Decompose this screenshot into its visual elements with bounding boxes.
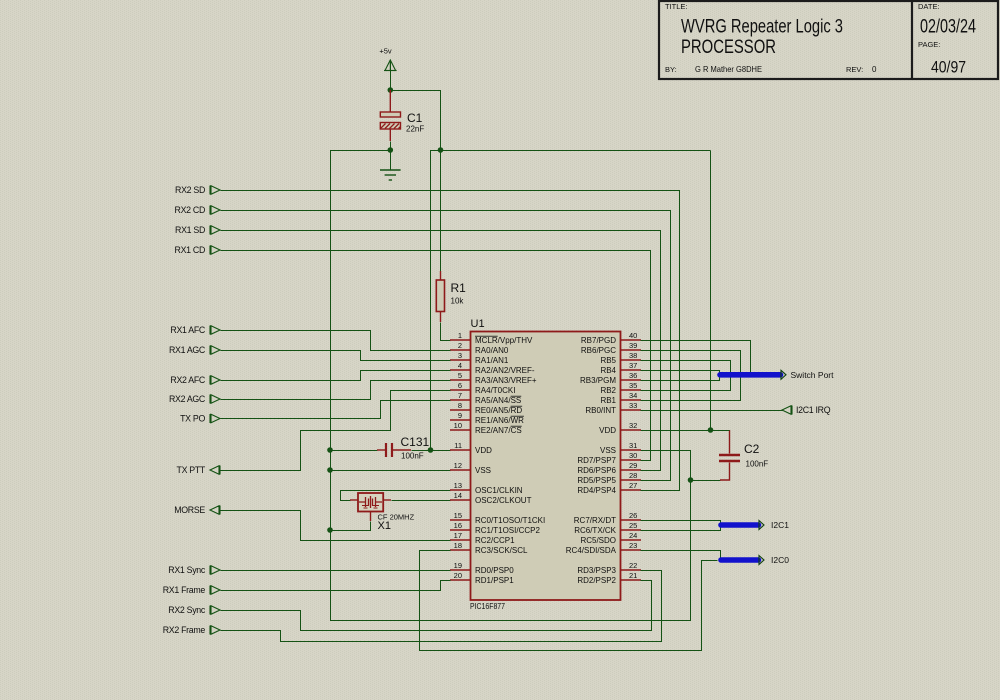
capacitor C2 top pin bbox=[729, 430, 731, 454]
svg-text:RB5: RB5 bbox=[600, 356, 616, 365]
svg-text:100nF: 100nF bbox=[401, 452, 424, 461]
svg-text:22: 22 bbox=[629, 561, 637, 570]
wire C131 left to ground column bbox=[331, 450, 378, 452]
svg-text:7: 7 bbox=[458, 391, 462, 400]
wire crystal to pin 14 OSC2 bbox=[392, 500, 451, 502]
wire pin 36 RB3 to switch bus bbox=[641, 378, 720, 381]
svg-text:RD5/PSP5: RD5/PSP5 bbox=[577, 476, 616, 485]
pin 26 RC7/RX/DT stub bbox=[574, 511, 641, 525]
svg-text:REV:: REV: bbox=[846, 65, 863, 74]
svg-text:02/03/24: 02/03/24 bbox=[920, 17, 976, 38]
svg-text:RA5/AN4/SS: RA5/AN4/SS bbox=[475, 396, 521, 405]
pin 19 RD0/PSP0 stub bbox=[450, 561, 514, 575]
svg-text:RE0/AN5/RD: RE0/AN5/RD bbox=[475, 406, 522, 415]
op-amp U1 body (PIC16F877 IC) bbox=[470, 318, 621, 611]
wire R1 to pin 1 MCLR bbox=[441, 323, 451, 341]
svg-text:RX2 Frame: RX2 Frame bbox=[163, 625, 206, 635]
svg-text:VSS: VSS bbox=[600, 446, 616, 455]
svg-text:40: 40 bbox=[629, 331, 637, 340]
svg-text:RD4/PSP4: RD4/PSP4 bbox=[577, 486, 616, 495]
wire TX PTT to pin 6 bbox=[221, 391, 451, 471]
svg-text:MCLR/Vpp/THV: MCLR/Vpp/THV bbox=[475, 336, 533, 345]
svg-text:RX2 SD: RX2 SD bbox=[175, 185, 205, 195]
wire VDD left branch to pin 11 column bbox=[431, 151, 441, 451]
pin 29 RD6/PSP6 stub bbox=[577, 461, 641, 475]
svg-text:RE2/AN7/CS: RE2/AN7/CS bbox=[475, 426, 522, 435]
svg-text:RX2 AGC: RX2 AGC bbox=[169, 394, 206, 404]
svg-text:34: 34 bbox=[629, 391, 637, 400]
power +5v symbol bbox=[379, 47, 396, 71]
svg-text:18: 18 bbox=[454, 541, 462, 550]
pin 9 RE1/AN6/WR stub bbox=[450, 411, 524, 425]
pin 37 RB4 stub bbox=[600, 361, 641, 375]
svg-text:RC2/CCP1: RC2/CCP1 bbox=[475, 536, 515, 545]
junction pin11 VDD / C131 bbox=[428, 447, 434, 453]
svg-text:RX1 AFC: RX1 AFC bbox=[170, 325, 206, 335]
svg-text:DATE:: DATE: bbox=[918, 2, 940, 11]
svg-text:VDD: VDD bbox=[599, 426, 616, 435]
capacitor C1 top pin bbox=[389, 90, 391, 112]
svg-text:RX2 CD: RX2 CD bbox=[175, 205, 205, 215]
junction pin 12 VSS on ground column bbox=[327, 467, 333, 473]
svg-text:2: 2 bbox=[458, 341, 462, 350]
svg-text:PROCESSOR: PROCESSOR bbox=[681, 37, 776, 58]
svg-text:0: 0 bbox=[872, 65, 877, 74]
wire RX1 AGC to pin 3 bbox=[221, 351, 451, 361]
wire pin 40 RB7 to switch bus bbox=[641, 341, 751, 373]
svg-text:30: 30 bbox=[629, 451, 637, 460]
junction C2 bottom on VSS column bbox=[688, 477, 694, 483]
svg-text:1: 1 bbox=[458, 331, 462, 340]
svg-text:WVRG Repeater Logic 3: WVRG Repeater Logic 3 bbox=[681, 17, 843, 38]
wire C1 to ground junction bbox=[389, 142, 391, 151]
svg-text:RB1: RB1 bbox=[600, 396, 616, 405]
crystal X1 case pin bbox=[370, 512, 372, 522]
capacitor C131 right pin bbox=[393, 449, 411, 451]
junction C131 left on ground column bbox=[327, 447, 333, 453]
svg-text:RC4/SDI/SDA: RC4/SDI/SDA bbox=[566, 546, 617, 555]
wire RX2 Frame to pin 22 bbox=[221, 571, 662, 642]
pin 15 RC0/T1OSO/T1CKI stub bbox=[450, 511, 545, 525]
ground symbol bbox=[380, 170, 401, 180]
svg-text:6: 6 bbox=[458, 381, 462, 390]
wire crystal case to ground column bbox=[331, 522, 371, 531]
pin 18 RC3/SCK/SCL stub bbox=[450, 541, 528, 555]
svg-text:I2C1 IRQ: I2C1 IRQ bbox=[796, 405, 831, 415]
node RX1 Frame terminal bbox=[163, 585, 220, 595]
svg-text:36: 36 bbox=[629, 371, 637, 380]
pin 7 RA5/AN4/SS stub bbox=[450, 391, 521, 405]
wire RX2 Sync to pin 21 bbox=[221, 581, 652, 631]
svg-text:19: 19 bbox=[454, 561, 462, 570]
svg-text:RA0/AN0: RA0/AN0 bbox=[475, 346, 509, 355]
svg-text:5: 5 bbox=[458, 371, 462, 380]
crystal X1 left pin bbox=[350, 499, 358, 501]
node RX1 Sync terminal bbox=[168, 565, 220, 575]
junction VDD node at (440.5,150) bbox=[438, 147, 444, 153]
wire RX2 SD to pin 27 bbox=[221, 191, 680, 491]
wire RX2 AGC to pin 5 bbox=[221, 381, 451, 400]
crystal X1 bbox=[358, 493, 415, 532]
svg-text:VDD: VDD bbox=[475, 446, 492, 455]
svg-text:C2: C2 bbox=[744, 442, 760, 456]
wire pin 18 SCL to I2C0 bus bbox=[420, 551, 718, 651]
svg-text:RC0/T1OSO/T1CKI: RC0/T1OSO/T1CKI bbox=[475, 516, 545, 525]
svg-text:RD6/PSP6: RD6/PSP6 bbox=[577, 466, 616, 475]
resistor R1 top pin bbox=[440, 271, 442, 280]
wire I2C1 bus bbox=[721, 520, 789, 530]
svg-text:OSC1/CLKIN: OSC1/CLKIN bbox=[475, 486, 523, 495]
node RX2 CD terminal bbox=[175, 205, 220, 215]
svg-text:4: 4 bbox=[458, 361, 462, 370]
svg-text:X1: X1 bbox=[378, 520, 391, 532]
pin 34 RB1 stub bbox=[600, 391, 641, 405]
pin 6 RA4/T0CKI stub bbox=[450, 381, 515, 395]
pin 4 RA2/AN2/VREF- stub bbox=[450, 361, 535, 375]
junction +5v top bbox=[388, 87, 394, 93]
svg-text:RD3/PSP3: RD3/PSP3 bbox=[577, 566, 616, 575]
svg-text:RD1/PSP1: RD1/PSP1 bbox=[475, 576, 514, 585]
svg-text:RC6/TX/CK: RC6/TX/CK bbox=[574, 526, 616, 535]
wire to pin 11 VDD bbox=[431, 450, 451, 452]
pin 14 OSC2/CLKOUT stub bbox=[450, 491, 532, 505]
svg-text:33: 33 bbox=[629, 401, 637, 410]
svg-text:11: 11 bbox=[454, 441, 462, 450]
svg-text:U1: U1 bbox=[471, 318, 485, 330]
svg-text:PAGE:: PAGE: bbox=[918, 40, 940, 49]
wire ground rail left/down bbox=[331, 151, 691, 621]
wire RX1 Frame to pin 20 bbox=[221, 581, 451, 591]
junction crystal ground on ground column bbox=[327, 527, 333, 533]
node RX2 SD terminal bbox=[175, 185, 220, 195]
svg-text:TITLE:: TITLE: bbox=[665, 2, 688, 11]
svg-text:RX1 AGC: RX1 AGC bbox=[169, 345, 206, 355]
svg-text:24: 24 bbox=[629, 531, 637, 540]
pin 17 RC2/CCP1 stub bbox=[450, 531, 515, 545]
node RX1 AGC terminal bbox=[169, 345, 220, 355]
svg-text:RA1/AN1: RA1/AN1 bbox=[475, 356, 509, 365]
svg-text:RC5/SDO: RC5/SDO bbox=[580, 536, 616, 545]
wire RX1 CD to pin 30 bbox=[221, 251, 651, 461]
svg-text:+5v: +5v bbox=[379, 47, 392, 56]
svg-text:OSC2/CLKOUT: OSC2/CLKOUT bbox=[475, 496, 532, 505]
svg-text:RC1/T1OSI/CCP2: RC1/T1OSI/CCP2 bbox=[475, 526, 540, 535]
wire pin 25 RC6 to I2C1 bus bbox=[641, 528, 721, 531]
pin 28 RD5/PSP5 stub bbox=[577, 471, 641, 485]
pin 12 VSS stub bbox=[450, 461, 491, 475]
capacitor C131 left pin bbox=[377, 449, 385, 451]
pin 30 RD7/PSP7 stub bbox=[577, 451, 641, 465]
pin 27 RD4/PSP4 stub bbox=[577, 481, 641, 495]
pin 32 VDD stub bbox=[599, 421, 641, 435]
pin 8 RE0/AN5/RD stub bbox=[450, 401, 522, 415]
pin 22 RD3/PSP3 stub bbox=[577, 561, 641, 575]
crystal X1 right pin bbox=[383, 499, 391, 501]
svg-text:VSS: VSS bbox=[475, 466, 491, 475]
pin 25 RC6/TX/CK stub bbox=[574, 521, 641, 535]
wire C2 bottom to VSS column bbox=[691, 480, 721, 482]
svg-text:23: 23 bbox=[629, 541, 637, 550]
node MORSE terminal bbox=[174, 505, 220, 515]
svg-text:RA3/AN3/VREF+: RA3/AN3/VREF+ bbox=[475, 376, 537, 385]
svg-text:MORSE: MORSE bbox=[174, 505, 205, 515]
junction ground node bbox=[388, 147, 394, 153]
svg-text:RX2 AFC: RX2 AFC bbox=[170, 375, 206, 385]
svg-text:20: 20 bbox=[454, 571, 462, 580]
pin 36 RB3/PGM stub bbox=[580, 371, 641, 385]
pin 1 MCLR/Vpp/THV stub bbox=[450, 331, 533, 345]
title block frame bbox=[659, 1, 998, 79]
wire MORSE to pin 17 bbox=[221, 511, 451, 541]
svg-text:37: 37 bbox=[629, 361, 637, 370]
svg-text:14: 14 bbox=[454, 491, 462, 500]
svg-text:27: 27 bbox=[629, 481, 637, 490]
pin 20 RD1/PSP1 stub bbox=[450, 571, 514, 585]
node TX PTT terminal bbox=[177, 465, 221, 475]
svg-text:3: 3 bbox=[458, 351, 462, 360]
node RX2 AGC terminal bbox=[169, 394, 220, 404]
pin 38 RB5 stub bbox=[600, 351, 641, 365]
pin 39 RB6/PGC stub bbox=[581, 341, 641, 355]
svg-text:29: 29 bbox=[629, 461, 637, 470]
node RX1 AFC terminal bbox=[170, 325, 220, 335]
pin 3 RA1/AN1 stub bbox=[450, 351, 509, 365]
svg-text:RB7/PGD: RB7/PGD bbox=[581, 336, 616, 345]
wire RX2 CD to pin 28 bbox=[221, 211, 671, 481]
wire pin 39 RB6 to switch bus bbox=[641, 351, 741, 373]
wire VDD junction to C2 bbox=[711, 430, 730, 432]
node I2C1 IRQ terminal bbox=[782, 405, 831, 415]
wire VDD right rail bbox=[441, 150, 711, 152]
junction VDD pin 32 / C2 bbox=[708, 427, 714, 433]
wire Switch Port bus bbox=[720, 370, 834, 380]
wire pin 37 RB4 to switch bus bbox=[641, 371, 720, 373]
wire RX1 SD to pin 29 bbox=[221, 231, 661, 471]
svg-text:25: 25 bbox=[629, 521, 637, 530]
svg-text:39: 39 bbox=[629, 341, 637, 350]
svg-text:I2C1: I2C1 bbox=[771, 520, 789, 530]
svg-text:RB2: RB2 bbox=[600, 386, 616, 395]
wire pin 34 RB1 to switch bus bbox=[641, 378, 741, 401]
wire pin 33 RB0/INT to I2C1 IRQ bbox=[641, 410, 783, 412]
pin 31 VSS stub bbox=[600, 441, 641, 455]
svg-text:RX1 CD: RX1 CD bbox=[175, 245, 205, 255]
capacitor C2 bottom pin bbox=[720, 463, 730, 481]
svg-text:16: 16 bbox=[454, 521, 462, 530]
svg-text:22nF: 22nF bbox=[406, 125, 424, 134]
svg-text:9: 9 bbox=[458, 411, 462, 420]
svg-text:RB0/INT: RB0/INT bbox=[585, 406, 616, 415]
wire TX PO to pin 7 bbox=[221, 401, 451, 419]
wire C131 right to VDD column bbox=[412, 450, 431, 452]
svg-text:RX1 Frame: RX1 Frame bbox=[163, 585, 206, 595]
svg-text:RD2/PSP2: RD2/PSP2 bbox=[577, 576, 616, 585]
svg-text:8: 8 bbox=[458, 401, 462, 410]
wire I2C0 bus bbox=[721, 555, 789, 565]
svg-text:35: 35 bbox=[629, 381, 637, 390]
wire +5v symbol to junction bbox=[389, 61, 391, 91]
wire VDD right column down bbox=[710, 151, 712, 431]
svg-text:38: 38 bbox=[629, 351, 637, 360]
svg-text:C131: C131 bbox=[401, 435, 430, 449]
resistor R1 bbox=[436, 280, 466, 312]
wire ground to pin 12 VSS bbox=[331, 470, 451, 472]
wire pin 13 OSC1 to crystal bbox=[341, 491, 451, 501]
svg-text:Switch Port: Switch Port bbox=[791, 370, 835, 380]
node RX1 SD terminal bbox=[175, 225, 220, 235]
node RX2 Sync terminal bbox=[168, 605, 220, 615]
wire pin 38 RB5 to switch bus bbox=[641, 361, 731, 373]
svg-text:TX PTT: TX PTT bbox=[177, 465, 206, 475]
wire RX1 Sync to pin 19 bbox=[221, 570, 451, 572]
svg-text:28: 28 bbox=[629, 471, 637, 480]
svg-text:RX1 SD: RX1 SD bbox=[175, 225, 205, 235]
pin 21 RD2/PSP2 stub bbox=[577, 571, 641, 585]
wire pin 26 RC7 to I2C1 bus bbox=[641, 521, 721, 523]
node RX1 CD terminal bbox=[175, 245, 220, 255]
pin 24 RC5/SDO stub bbox=[580, 531, 641, 545]
svg-text:C1: C1 bbox=[407, 111, 423, 125]
node TX PO terminal bbox=[180, 414, 220, 424]
pin 40 RB7/PGD stub bbox=[581, 331, 641, 345]
pin 13 OSC1/CLKIN stub bbox=[450, 481, 523, 495]
resistor R1 bottom pin bbox=[440, 312, 442, 323]
svg-text:32: 32 bbox=[629, 421, 637, 430]
svg-text:31: 31 bbox=[629, 441, 637, 450]
pin 35 RB2 stub bbox=[600, 381, 641, 395]
wire to pin 32 VDD bbox=[641, 430, 711, 432]
svg-text:RB4: RB4 bbox=[600, 366, 616, 375]
svg-text:RX1 Sync: RX1 Sync bbox=[168, 565, 206, 575]
svg-text:21: 21 bbox=[629, 571, 637, 580]
wire ground stem bbox=[389, 151, 391, 171]
svg-text:PIC16F877: PIC16F877 bbox=[470, 601, 505, 611]
svg-text:RD0/PSP0: RD0/PSP0 bbox=[475, 566, 514, 575]
svg-text:26: 26 bbox=[629, 511, 637, 520]
svg-text:RB6/PGC: RB6/PGC bbox=[581, 346, 616, 355]
pin 16 RC1/T1OSI/CCP2 stub bbox=[450, 521, 540, 535]
svg-text:RE1/AN6/WR: RE1/AN6/WR bbox=[475, 416, 524, 425]
svg-text:RX2 Sync: RX2 Sync bbox=[168, 605, 206, 615]
svg-text:BY:: BY: bbox=[665, 65, 677, 74]
svg-text:RB3/PGM: RB3/PGM bbox=[580, 376, 616, 385]
svg-text:12: 12 bbox=[454, 461, 462, 470]
svg-text:10k: 10k bbox=[451, 297, 465, 306]
pin 23 RC4/SDI/SDA stub bbox=[566, 541, 641, 555]
node RX2 Frame terminal bbox=[163, 625, 220, 635]
pin 5 RA3/AN3/VREF+ stub bbox=[450, 371, 537, 385]
pin 33 RB0/INT stub bbox=[585, 401, 641, 415]
svg-text:13: 13 bbox=[454, 481, 462, 490]
title block texts bbox=[665, 2, 976, 77]
capacitor C2 bbox=[719, 442, 768, 469]
svg-text:RC3/SCK/SCL: RC3/SCK/SCL bbox=[475, 546, 528, 555]
capacitor C131 bbox=[386, 435, 430, 461]
svg-text:RD7/PSP7: RD7/PSP7 bbox=[577, 456, 616, 465]
pin 11 VDD stub bbox=[450, 441, 492, 455]
svg-text:10: 10 bbox=[454, 421, 462, 430]
svg-text:G R Mather G8DHE: G R Mather G8DHE bbox=[695, 64, 762, 74]
wire RX1 AFC to pin 2 bbox=[221, 331, 451, 351]
wire pin 35 RB2 to switch bus bbox=[641, 378, 731, 391]
svg-text:15: 15 bbox=[454, 511, 462, 520]
svg-text:RC7/RX/DT: RC7/RX/DT bbox=[574, 516, 616, 525]
svg-text:100nF: 100nF bbox=[746, 460, 769, 469]
wire +5v to VDD column bbox=[390, 91, 440, 151]
svg-text:I2C0: I2C0 bbox=[771, 555, 789, 565]
wire RX2 AFC to pin 4 bbox=[221, 371, 451, 381]
capacitor C1 bbox=[380, 111, 424, 134]
svg-text:TX PO: TX PO bbox=[180, 414, 205, 424]
svg-text:RA2/AN2/VREF-: RA2/AN2/VREF- bbox=[475, 366, 535, 375]
wire pin 23 SDA to I2C0 bus bbox=[641, 551, 721, 558]
svg-text:40/97: 40/97 bbox=[931, 58, 966, 77]
capacitor C1 bottom pin bbox=[389, 129, 391, 141]
pin 10 RE2/AN7/CS stub bbox=[450, 421, 522, 435]
svg-text:17: 17 bbox=[454, 531, 462, 540]
wire R1 top green bbox=[440, 151, 442, 272]
pin 2 RA0/AN0 stub bbox=[450, 341, 509, 355]
svg-text:RA4/T0CKI: RA4/T0CKI bbox=[475, 386, 515, 395]
node RX2 AFC terminal bbox=[170, 375, 220, 385]
svg-text:R1: R1 bbox=[451, 281, 467, 295]
